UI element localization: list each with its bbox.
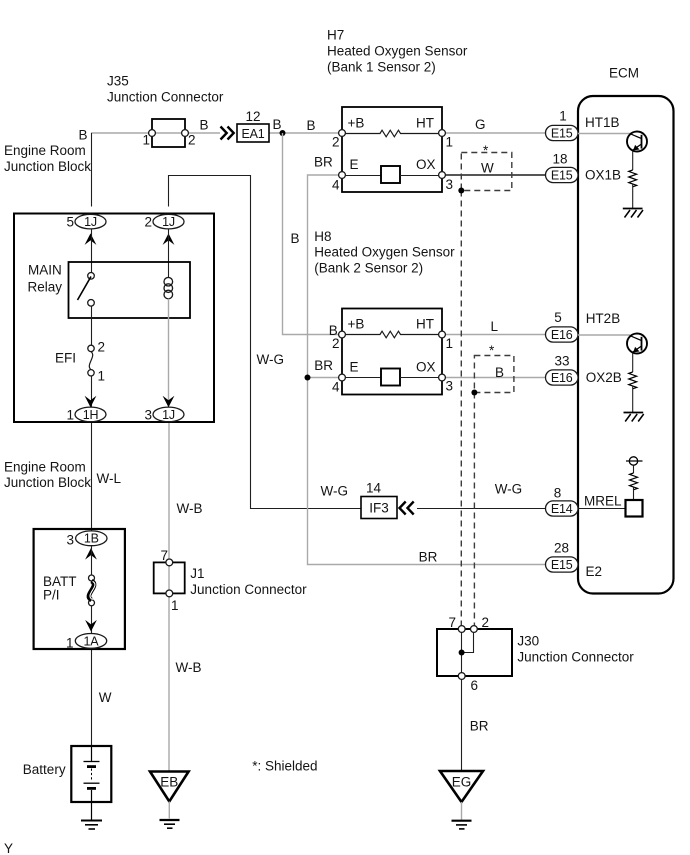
svg-text:EB: EB <box>160 775 178 790</box>
svg-text:B: B <box>307 118 316 133</box>
svg-text:B: B <box>329 323 338 338</box>
svg-text:+B: +B <box>348 116 365 131</box>
svg-text:*: Shielded: *: Shielded <box>252 759 317 774</box>
svg-text:2: 2 <box>144 215 152 230</box>
svg-text:B: B <box>291 231 300 246</box>
wire L from H8 HT to ECM E16 pin5 <box>445 334 546 336</box>
sensor H8 box <box>342 309 442 395</box>
svg-text:1J: 1J <box>84 215 97 229</box>
svg-text:E15: E15 <box>551 169 573 183</box>
arrow down above 1H <box>85 396 97 408</box>
heater resistor H8 <box>345 331 438 338</box>
svg-text:BR: BR <box>419 550 438 565</box>
battery cells <box>84 746 100 821</box>
connector oval 1A pin1 <box>75 634 106 649</box>
node BR junction dot at H8 E <box>305 375 311 381</box>
wire relay feed from 1J5 <box>91 229 93 272</box>
svg-text:W-G: W-G <box>495 482 523 497</box>
svg-text:W-L: W-L <box>97 471 122 486</box>
wire G from H7 HT to ECM E15 pin1 <box>445 132 546 134</box>
wire W-B from J1 pin1 to EB ground <box>168 597 170 772</box>
svg-text:E15: E15 <box>551 558 573 572</box>
svg-text:H8: H8 <box>314 229 331 244</box>
svg-text:2: 2 <box>188 133 196 148</box>
wire W from BATT 1A to battery <box>91 649 93 747</box>
svg-text:B: B <box>273 117 282 132</box>
connector IF3 box <box>361 497 397 519</box>
node shield drain dot W <box>458 188 464 194</box>
svg-text:P/I: P/I <box>43 588 60 603</box>
svg-text:EFI: EFI <box>55 351 76 366</box>
svg-text:OX: OX <box>416 157 436 172</box>
relay coil <box>164 277 173 298</box>
junction block box BATT <box>34 529 125 649</box>
arrow up under 1B <box>85 548 97 560</box>
wire BR from H7 E down to ECM E15 pin28 <box>308 175 547 565</box>
chevrons into IF3 <box>400 502 414 515</box>
wire EB stub <box>168 802 170 819</box>
node B junction dot after EA1 <box>280 130 286 136</box>
wire HT2B stub to transistor <box>578 334 630 336</box>
wire Q2 emitter down <box>632 353 634 372</box>
svg-text:E14: E14 <box>551 502 573 516</box>
resistor R3 (MREL coil) <box>630 473 638 490</box>
svg-text:5: 5 <box>66 215 74 230</box>
wire from relay contact to EFI fuse <box>91 306 93 345</box>
svg-text:18: 18 <box>552 152 567 167</box>
svg-text:EG: EG <box>452 775 472 790</box>
svg-text:8: 8 <box>554 486 562 501</box>
svg-text:Heated Oxygen Sensor: Heated Oxygen Sensor <box>314 245 455 260</box>
svg-text:OX1B: OX1B <box>585 168 621 183</box>
svg-text:3: 3 <box>144 408 152 423</box>
wire BR from H8 E to BR vertical <box>308 377 339 379</box>
svg-text:2: 2 <box>332 135 340 150</box>
pin terminal H7 +B (2) <box>339 130 346 137</box>
connector oval 1J pin3 <box>153 407 184 422</box>
fusible link BATT P/I <box>89 575 95 606</box>
svg-text:Junction Connector: Junction Connector <box>107 90 224 105</box>
connector J30 box <box>437 629 512 676</box>
svg-text:OX2B: OX2B <box>586 370 622 385</box>
svg-text:1: 1 <box>142 133 150 148</box>
connector J35 pin2 terminal <box>182 130 189 137</box>
connector oval E14 pin8 <box>546 501 579 516</box>
svg-text:1: 1 <box>98 369 106 384</box>
wire B main horizontal from engine-room junction block to H7 +B <box>91 132 220 134</box>
svg-text:+B: +B <box>348 317 365 332</box>
svg-text:E16: E16 <box>551 328 573 342</box>
arrow up under 1J pin5 <box>85 233 97 245</box>
connector oval 1J pin2 <box>153 214 184 229</box>
ground (EB) <box>160 820 180 828</box>
pin terminal H7 OX (3) <box>439 172 446 179</box>
svg-text:E: E <box>350 157 359 172</box>
svg-text:B: B <box>495 365 504 380</box>
arrow down above 1J pin3 <box>163 396 175 408</box>
svg-text:1J: 1J <box>162 408 175 422</box>
svg-text:E: E <box>350 360 359 375</box>
svg-text:H7: H7 <box>327 28 344 43</box>
relay contact top terminal <box>88 273 95 280</box>
svg-text:BR: BR <box>470 719 489 734</box>
svg-text:IF3: IF3 <box>369 501 389 516</box>
connector J35 pin1 terminal <box>149 130 156 137</box>
svg-text:B: B <box>200 118 209 133</box>
svg-text:7: 7 <box>448 615 456 630</box>
sensing element H7 <box>345 166 438 183</box>
transistor Q2 (HT2B driver) <box>627 334 647 354</box>
svg-text:3: 3 <box>446 379 454 394</box>
svg-text:MREL: MREL <box>584 494 622 509</box>
connector oval 1B pin3 <box>76 531 107 546</box>
svg-text:J1: J1 <box>190 566 204 581</box>
pin terminal H8 E (4) <box>339 374 346 381</box>
svg-text:Relay: Relay <box>28 280 63 295</box>
svg-text:33: 33 <box>554 354 569 369</box>
svg-text:1: 1 <box>446 336 454 351</box>
wire W-L from 1H to BATT 1B <box>91 422 93 531</box>
svg-text:L: L <box>491 319 499 334</box>
svg-text:1J: 1J <box>162 215 175 229</box>
svg-text:1: 1 <box>559 109 567 124</box>
svg-text:12: 12 <box>245 109 260 124</box>
svg-text:J35: J35 <box>107 74 129 89</box>
svg-text:W-B: W-B <box>177 501 203 516</box>
power symbol (MREL supply) <box>626 457 643 465</box>
svg-text:G: G <box>475 117 486 132</box>
shield dashed line from B box to J30 pin2 <box>473 393 475 626</box>
connector oval 1J pin5 <box>75 214 106 229</box>
svg-text:1H: 1H <box>83 408 99 422</box>
connector J30 pin2 terminal <box>471 626 478 633</box>
svg-text:1A: 1A <box>84 634 100 648</box>
wire from coil to 1J pin3 <box>168 299 170 407</box>
wire supply to R3 <box>633 465 635 473</box>
connector J1 box <box>154 562 185 593</box>
svg-text:1: 1 <box>66 408 74 423</box>
svg-text:W: W <box>99 690 112 705</box>
svg-text:J30: J30 <box>517 634 539 649</box>
node shield drain dot B <box>471 390 477 396</box>
wire MREL stub <box>578 508 626 510</box>
ground (EG) <box>452 821 472 829</box>
svg-text:*: * <box>483 143 489 158</box>
svg-text:Engine Room: Engine Room <box>4 143 86 158</box>
svg-text:OX: OX <box>416 360 436 375</box>
svg-text:4: 4 <box>332 178 340 193</box>
wire W-G from 1J pin2 up and down to IF3 <box>169 176 362 509</box>
wire fuse to 1A <box>91 606 93 634</box>
svg-text:14: 14 <box>366 481 382 496</box>
ground triangle EG <box>440 771 483 802</box>
fuse EFI <box>88 345 94 376</box>
heater resistor H7 <box>345 130 438 137</box>
svg-text:HT2B: HT2B <box>586 311 621 326</box>
svg-text:MAIN: MAIN <box>28 263 62 278</box>
wire W-G from IF3 chevrons to ECM E14 <box>417 508 546 510</box>
connector J1 pin7 terminal <box>166 559 173 566</box>
svg-text:HT1B: HT1B <box>585 115 620 130</box>
connector J30 pin7 terminal <box>458 626 465 633</box>
resistor R2 (OX2B pull) <box>629 372 637 389</box>
svg-text:Engine Room: Engine Room <box>4 460 86 475</box>
svg-text:Battery: Battery <box>23 762 66 777</box>
pin terminal H8 HT (1) <box>439 331 446 338</box>
wire Q1 emitter down <box>632 151 634 170</box>
wire BR from J30 pin6 to EG ground <box>461 680 463 772</box>
svg-text:3: 3 <box>66 533 74 548</box>
wire W-B from 1J pin3 to J1 pin7 <box>168 422 170 559</box>
svg-text:Junction Block: Junction Block <box>4 159 91 174</box>
wire R2 to ground <box>632 386 634 413</box>
ground (chassis, Q2) <box>624 413 644 422</box>
svg-text:(Bank 1 Sensor 2): (Bank 1 Sensor 2) <box>327 60 436 75</box>
svg-text:2: 2 <box>332 336 340 351</box>
battery box <box>71 746 111 802</box>
connector EA1 box <box>237 124 269 142</box>
connector oval E15 pin18 <box>546 167 579 182</box>
MREL driver box U1 <box>626 500 643 517</box>
ground triangle EB <box>150 772 189 802</box>
wire from EFI to 1H <box>91 376 93 407</box>
wire R3 to MREL driver <box>633 487 635 500</box>
svg-text:EA1: EA1 <box>241 127 264 141</box>
wire B (shielded) from H8 OX to ECM E16 pin33 <box>445 377 546 379</box>
svg-text:1: 1 <box>171 598 179 613</box>
svg-text:4: 4 <box>332 380 340 395</box>
svg-text:HT: HT <box>416 317 434 332</box>
svg-text:2: 2 <box>482 615 490 630</box>
connector J35 box <box>152 119 185 147</box>
svg-text:E15: E15 <box>551 127 573 141</box>
relay contact blade <box>78 277 92 301</box>
connector oval E15 pin28 <box>546 557 579 572</box>
svg-text:1B: 1B <box>84 532 99 546</box>
connector J30 pin6 terminal <box>458 673 465 680</box>
svg-text:28: 28 <box>554 541 569 556</box>
svg-text:5: 5 <box>554 310 562 325</box>
svg-text:7: 7 <box>160 548 168 563</box>
connector J1 pin1 terminal <box>166 590 173 597</box>
sensor H7 box <box>342 107 442 192</box>
shield dashed box B <box>474 356 514 393</box>
relay MAIN box <box>69 262 191 318</box>
transistor Q1 (HT1B driver) <box>627 132 647 152</box>
shield dashed line from W box to J30 pin7 <box>460 191 462 626</box>
ground (chassis, Q1) <box>623 209 643 218</box>
connector oval E16 pin5 <box>546 327 579 342</box>
svg-text:Junction Block: Junction Block <box>4 475 91 490</box>
connector oval E15 pin1 <box>546 125 579 140</box>
arrow up under 1J pin2 <box>163 233 175 245</box>
wire R1 to ground <box>632 184 634 209</box>
svg-text:Junction Connector: Junction Connector <box>190 582 307 597</box>
wire W-B through J1 <box>168 562 170 593</box>
svg-text:Heated Oxygen Sensor: Heated Oxygen Sensor <box>327 44 468 59</box>
wire 1B to fuse <box>91 546 93 575</box>
connector oval 1H pin1 <box>75 407 106 422</box>
wire HT1B stub to transistor <box>578 133 630 135</box>
svg-text:W-B: W-B <box>176 660 202 675</box>
svg-text:HT: HT <box>416 116 434 131</box>
relay contact bottom terminal <box>88 300 95 307</box>
svg-text:BR: BR <box>314 358 333 373</box>
svg-text:W-G: W-G <box>257 352 285 367</box>
wire B drop to 1J pin5 <box>91 133 93 207</box>
svg-text:6: 6 <box>471 678 479 693</box>
shield dashed box W <box>461 153 512 191</box>
svg-text:W: W <box>481 161 494 176</box>
wire W (shielded) from H7 OX to ECM E15 pin18 <box>445 174 546 176</box>
ECM box <box>578 96 674 594</box>
svg-text:3: 3 <box>446 177 454 192</box>
svg-text:ECM: ECM <box>609 66 639 81</box>
arrow down above 1A <box>85 620 97 632</box>
svg-text:1: 1 <box>446 135 454 150</box>
wire EG stub <box>461 802 463 820</box>
pin terminal H8 +B (2) <box>339 331 346 338</box>
connector J30 internal wiring <box>459 633 474 673</box>
svg-text:1: 1 <box>66 636 74 651</box>
svg-text:BR: BR <box>314 155 333 170</box>
resistor R1 (OX1B pull) <box>629 170 637 187</box>
svg-text:B: B <box>79 128 88 143</box>
svg-text:*: * <box>489 343 495 358</box>
svg-text:Y: Y <box>4 841 13 855</box>
pin terminal H8 OX (3) <box>439 374 446 381</box>
svg-text:W-G: W-G <box>321 484 349 499</box>
connector oval E16 pin33 <box>546 370 579 385</box>
sensing element H8 <box>345 369 438 386</box>
svg-text:(Bank 2 Sensor 2): (Bank 2 Sensor 2) <box>314 261 423 276</box>
wire B vertical to H8 +B <box>283 133 339 335</box>
junction block box Engine Room (relay block) <box>14 214 214 423</box>
pin terminal H7 E (4) <box>339 172 346 179</box>
svg-text:Junction Connector: Junction Connector <box>517 650 634 665</box>
pin terminal H7 HT (1) <box>439 130 446 137</box>
ground (battery) <box>81 821 102 830</box>
svg-text:2: 2 <box>98 340 106 355</box>
wire coil feed from 1J2 <box>168 229 170 278</box>
chevrons into EA1 <box>221 127 234 140</box>
svg-text:E2: E2 <box>586 564 603 579</box>
svg-text:E16: E16 <box>551 371 573 385</box>
